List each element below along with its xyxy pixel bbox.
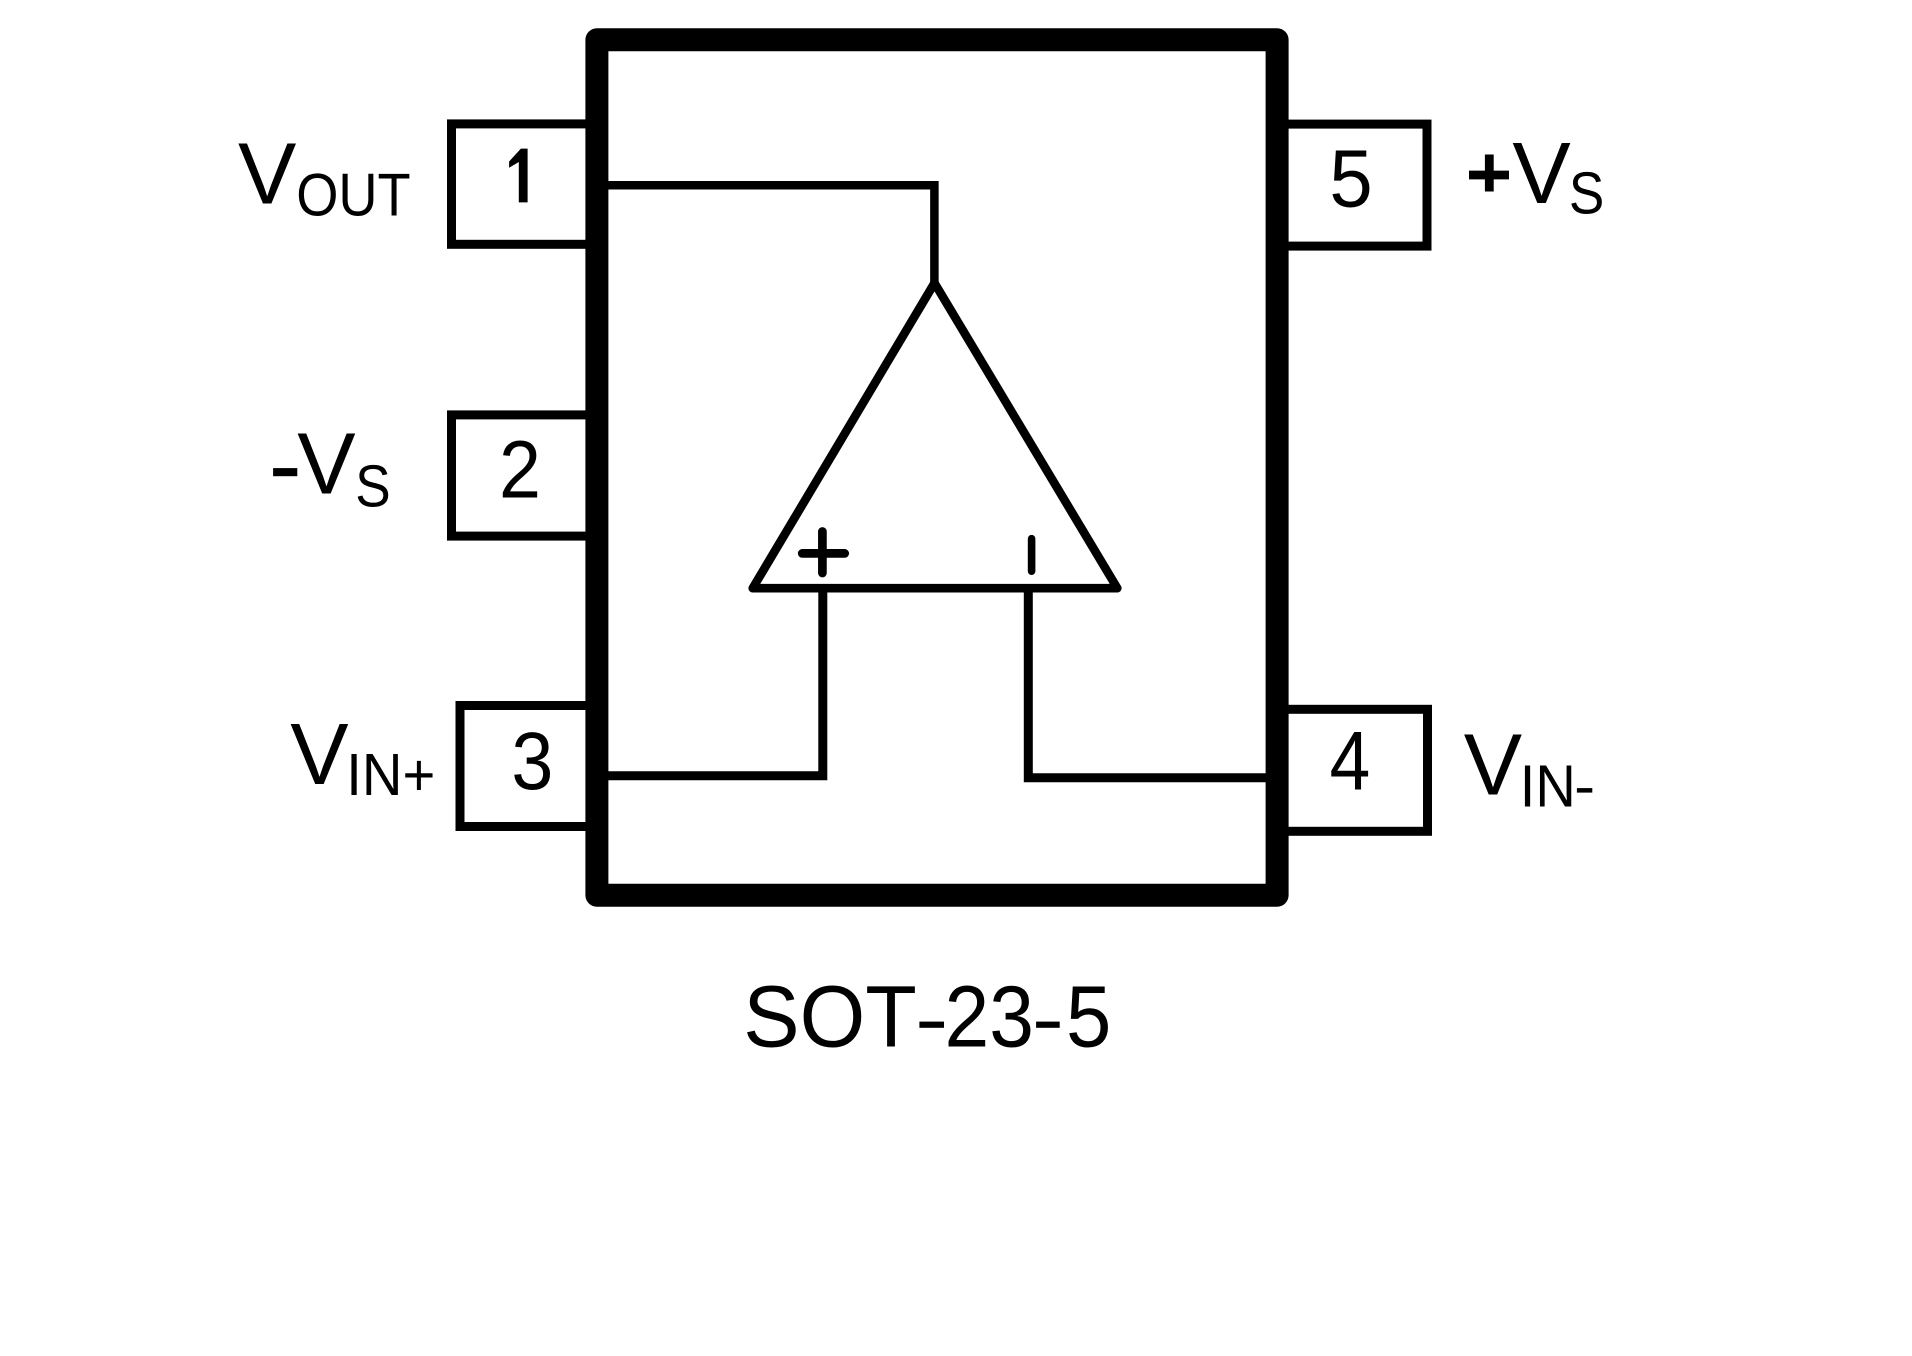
- svg-text:V: V: [290, 705, 348, 803]
- package name caption SOT-23-5: [743, 969, 1111, 1066]
- pin 2 pad box: [452, 415, 601, 536]
- svg-text:SOT: SOT: [743, 969, 917, 1066]
- svg-text:S: S: [355, 452, 390, 519]
- pin 4 pad box: [1274, 709, 1428, 831]
- svg-text:IN: IN: [1520, 753, 1576, 820]
- wire pin 3 to op-amp non-inverting input: [606, 590, 823, 776]
- op-amp inverting input minus marker (vertical tick): [1028, 539, 1036, 572]
- wire pin 4 to op-amp inverting input: [1028, 590, 1268, 778]
- pin number 1: [509, 149, 527, 203]
- pin 1 pad box: [452, 124, 601, 244]
- svg-text:V: V: [1464, 716, 1522, 814]
- svg-text:4: 4: [1330, 714, 1371, 808]
- svg-text:V: V: [238, 125, 296, 223]
- svg-text:5: 5: [1066, 969, 1111, 1066]
- svg-text:23: 23: [945, 969, 1035, 1066]
- svg-text:S: S: [1569, 160, 1604, 227]
- net label VOUT (pin 1): [238, 125, 411, 229]
- net label VIN- (pin 4): [1464, 716, 1593, 820]
- svg-text:2: 2: [499, 424, 541, 516]
- svg-text:IN+: IN+: [346, 741, 435, 808]
- svg-text:5: 5: [1329, 132, 1372, 223]
- net label +VS (pin 5): [1469, 124, 1604, 226]
- op-amp A1 triangle (pointing up): [753, 283, 1118, 588]
- pin 5 pad box: [1274, 124, 1427, 246]
- pin 3 pad box: [460, 706, 600, 827]
- op-amp non-inverting input plus marker: [802, 532, 845, 574]
- svg-text:V: V: [297, 414, 355, 512]
- svg-text:V: V: [1512, 124, 1570, 222]
- net label VIN+ (pin 3): [290, 705, 435, 808]
- svg-text:OUT: OUT: [296, 161, 411, 229]
- net label -VS (pin 2): [273, 414, 391, 519]
- wire pin 1 to op-amp output (top): [606, 185, 934, 285]
- svg-text:3: 3: [511, 715, 553, 807]
- IC package body U1 SOT-23-5 outline: [597, 40, 1277, 895]
